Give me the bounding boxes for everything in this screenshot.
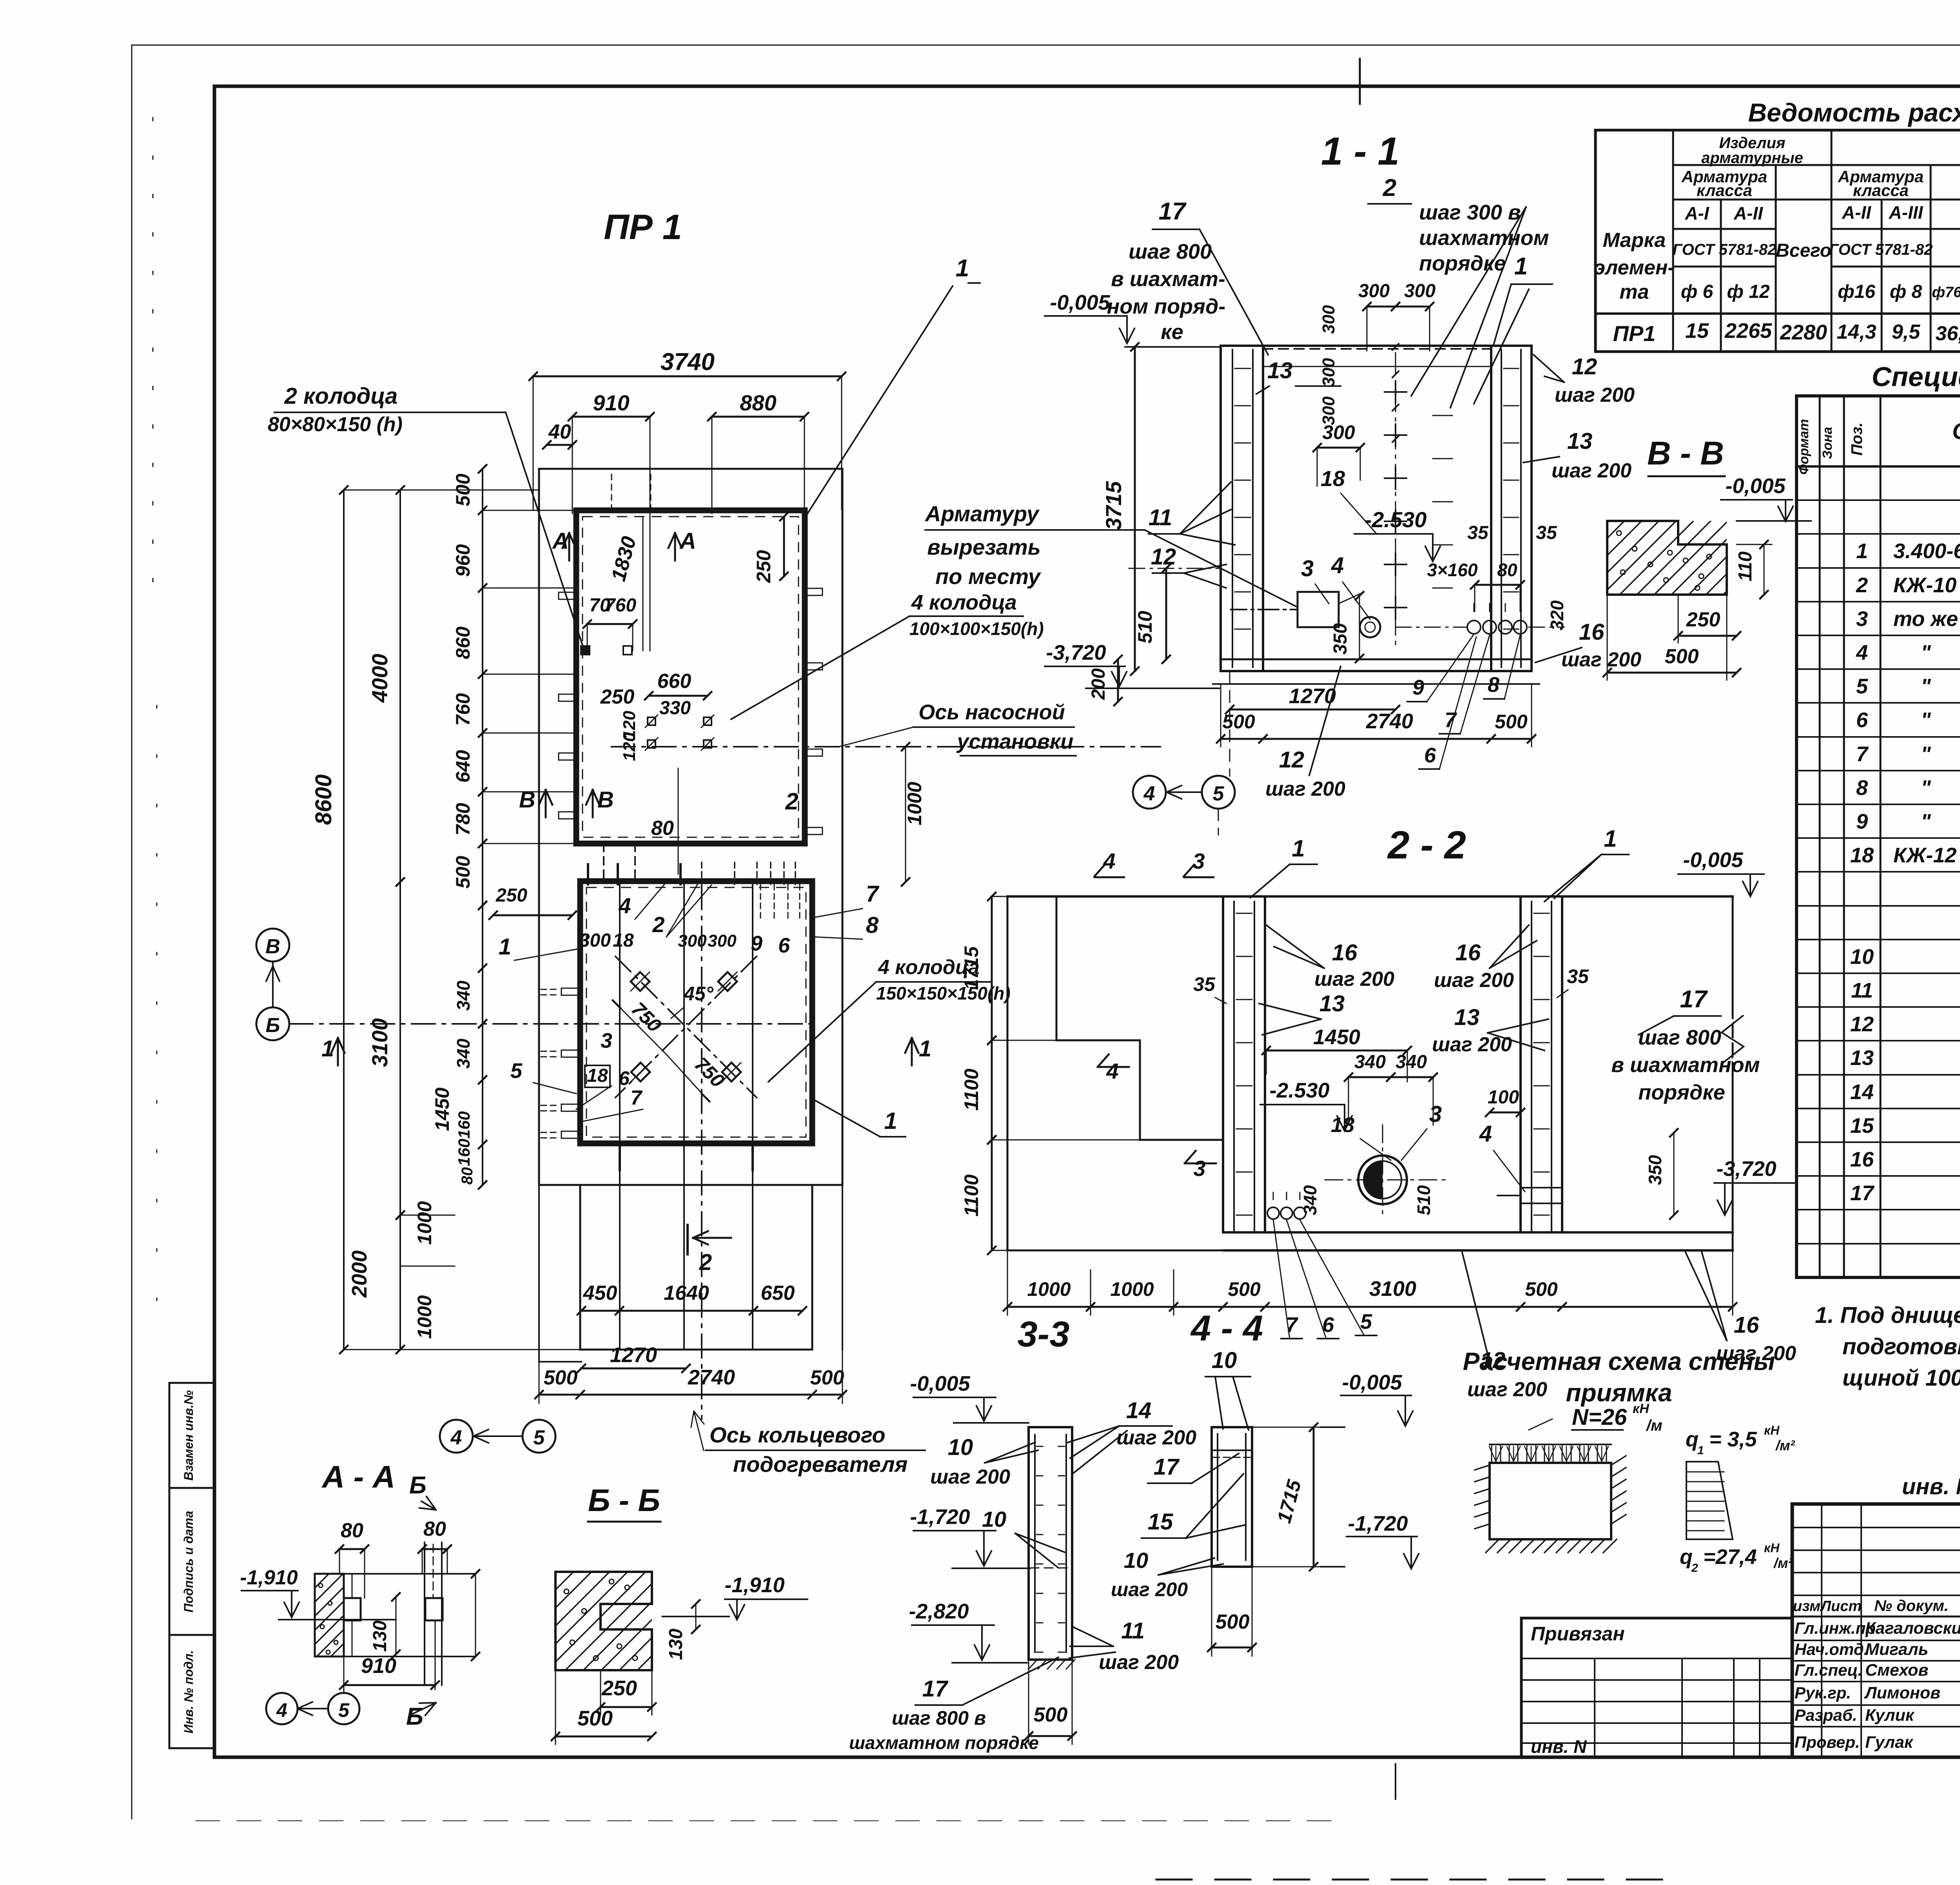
- svg-text:ном поряд-: ном поряд-: [1107, 295, 1226, 318]
- svg-text:18: 18: [1850, 844, 1874, 867]
- svg-text:160: 160: [455, 1139, 473, 1166]
- svg-text:3: 3: [1193, 1156, 1205, 1181]
- svg-text:/м²: /м²: [1773, 1555, 1793, 1571]
- svg-text:порядке: порядке: [1419, 252, 1506, 275]
- svg-text:1000: 1000: [904, 782, 926, 825]
- svg-text:шаг 200: шаг 200: [1111, 1578, 1188, 1600]
- svg-text:-1,910: -1,910: [240, 1566, 298, 1589]
- svg-text:15: 15: [1850, 1114, 1874, 1138]
- svg-text:18: 18: [1331, 1113, 1354, 1137]
- svg-text:А-II: А-II: [1733, 203, 1763, 223]
- svg-text:-0,005: -0,005: [1683, 848, 1743, 872]
- svg-text:17: 17: [1159, 198, 1187, 225]
- svg-text:130: 130: [370, 1620, 390, 1652]
- svg-text:Б - Б: Б - Б: [588, 1483, 660, 1518]
- svg-text:760: 760: [452, 693, 474, 726]
- svg-text:1270: 1270: [610, 1343, 657, 1367]
- svg-text:-0,005: -0,005: [1725, 474, 1786, 498]
- svg-text:15: 15: [1148, 1509, 1173, 1535]
- svg-text:Взамен инв.№: Взамен инв.№: [181, 1390, 196, 1480]
- svg-text:Кагаловский: Кагаловский: [1865, 1619, 1960, 1638]
- svg-text:3100: 3100: [1369, 1277, 1416, 1301]
- svg-text:250: 250: [753, 550, 775, 583]
- svg-text:35: 35: [1567, 965, 1589, 987]
- svg-text:шаг 300 в: шаг 300 в: [1419, 201, 1521, 224]
- svg-text:-0,005: -0,005: [910, 1372, 970, 1395]
- svg-text:В: В: [265, 935, 280, 958]
- svg-text:арматурные: арматурные: [1701, 149, 1803, 167]
- svg-text:1. Под днищем приямка выполнит: 1. Под днищем приямка выполнить: [1815, 1303, 1960, 1328]
- svg-text:": ": [1921, 776, 1931, 800]
- svg-text:500: 500: [577, 1707, 613, 1730]
- svg-text:35: 35: [1193, 973, 1216, 995]
- svg-text:шаг 200: шаг 200: [1552, 459, 1632, 482]
- svg-text:-2,820: -2,820: [909, 1600, 969, 1623]
- svg-text:300: 300: [1319, 358, 1338, 387]
- svg-text:q: q: [1686, 1428, 1699, 1451]
- svg-text:ПР 1: ПР 1: [604, 208, 682, 247]
- svg-text:500: 500: [544, 1366, 578, 1389]
- svg-text:4: 4: [1106, 1059, 1118, 1083]
- svg-text:4 - 4: 4 - 4: [1190, 1308, 1263, 1348]
- svg-text:300: 300: [1358, 281, 1390, 301]
- svg-text:130: 130: [666, 1629, 686, 1660]
- svg-text:80×80×150 (h): 80×80×150 (h): [268, 413, 403, 436]
- svg-text:/м²: /м²: [1775, 1437, 1795, 1453]
- svg-text:шаг 200: шаг 200: [1314, 968, 1394, 991]
- svg-text:3-3: 3-3: [1018, 1314, 1070, 1354]
- svg-text:17: 17: [1680, 986, 1708, 1013]
- svg-text:17: 17: [1154, 1454, 1180, 1480]
- svg-text:Разраб.: Разраб.: [1795, 1706, 1857, 1724]
- svg-text:13: 13: [1850, 1046, 1874, 1070]
- svg-text:4: 4: [450, 1426, 462, 1449]
- svg-text:8600: 8600: [311, 774, 336, 825]
- svg-text:13: 13: [1319, 991, 1345, 1016]
- svg-text:1000: 1000: [414, 1201, 436, 1245]
- svg-text:5: 5: [1360, 1310, 1372, 1333]
- svg-text:80: 80: [651, 817, 674, 840]
- svg-text:960: 960: [452, 544, 474, 577]
- left dim chains: [343, 490, 345, 1350]
- svg-text:12: 12: [1480, 1348, 1506, 1373]
- svg-text:Спецификация приямка ПР1: Спецификация приямка ПР1: [1872, 361, 1960, 392]
- svg-text:ф 6: ф 6: [1681, 281, 1713, 302]
- svg-text:-3,720: -3,720: [1046, 641, 1106, 664]
- diagonal axes lower rect: [615, 956, 757, 1098]
- svg-text:4 колодца: 4 колодца: [911, 591, 1017, 614]
- svg-text:45°: 45°: [683, 983, 714, 1005]
- svg-text:2: 2: [652, 912, 664, 937]
- svg-text:Смехов: Смехов: [1865, 1661, 1928, 1680]
- svg-text:В: В: [519, 787, 535, 813]
- svg-text:250: 250: [601, 1676, 637, 1700]
- svg-text:шахматном: шахматном: [1419, 226, 1549, 250]
- svg-text:№ докум.: № докум.: [1874, 1597, 1949, 1615]
- svg-text:А-II: А-II: [1842, 202, 1871, 223]
- svg-text:9,5: 9,5: [1892, 321, 1920, 343]
- svg-text:Гл.спец.: Гл.спец.: [1795, 1661, 1862, 1679]
- svg-text:450: 450: [583, 1282, 617, 1304]
- svg-text:Зона: Зона: [1820, 427, 1835, 459]
- svg-text:1: 1: [499, 934, 511, 960]
- svg-text:Кулик: Кулик: [1865, 1706, 1915, 1725]
- svg-text:шаг 200: шаг 200: [1116, 1426, 1196, 1449]
- svg-text:2280: 2280: [1780, 321, 1827, 344]
- svg-text:2000: 2000: [348, 1250, 371, 1298]
- svg-text:установки: установки: [956, 730, 1074, 753]
- svg-text:Гл.инж.пр: Гл.инж.пр: [1795, 1619, 1876, 1637]
- svg-text:ф 12: ф 12: [1727, 281, 1770, 302]
- svg-text:шаг 200: шаг 200: [930, 1466, 1010, 1488]
- svg-text:500: 500: [1222, 711, 1255, 733]
- svg-text:1450: 1450: [1313, 1025, 1360, 1049]
- svg-text:шахматном порядке: шахматном порядке: [849, 1733, 1039, 1753]
- svg-text:500: 500: [810, 1366, 844, 1389]
- svg-text:340: 340: [453, 980, 474, 1011]
- svg-text:6: 6: [778, 934, 790, 957]
- svg-text:Б: Б: [406, 1703, 423, 1730]
- svg-text:Марка: Марка: [1603, 229, 1666, 252]
- svg-text:160: 160: [455, 1111, 473, 1139]
- svg-text:7: 7: [631, 1087, 643, 1109]
- svg-text:1: 1: [956, 255, 969, 282]
- svg-text:3: 3: [1192, 849, 1205, 873]
- svg-text:элемен-: элемен-: [1594, 256, 1674, 279]
- svg-text:А: А: [679, 528, 696, 554]
- svg-text:300: 300: [1319, 305, 1338, 334]
- svg-text:А-III: А-III: [1889, 202, 1924, 223]
- svg-text:1000: 1000: [1027, 1278, 1071, 1300]
- svg-text:13: 13: [1567, 428, 1593, 454]
- svg-text:10: 10: [1850, 945, 1874, 969]
- svg-text:16: 16: [1734, 1312, 1759, 1338]
- svg-text:Провер.: Провер.: [1795, 1733, 1860, 1751]
- svg-text:9: 9: [1856, 810, 1868, 833]
- svg-text:12: 12: [1572, 354, 1597, 379]
- svg-text:КЖ-12: КЖ-12: [1893, 844, 1956, 867]
- svg-text:16: 16: [1332, 940, 1357, 965]
- svg-text:11: 11: [1851, 979, 1873, 1002]
- svg-text:3715: 3715: [1101, 481, 1126, 530]
- svg-text:1000: 1000: [1110, 1278, 1154, 1300]
- svg-text:1: 1: [919, 1036, 931, 1061]
- svg-text:КЖ-10: КЖ-10: [1893, 573, 1956, 597]
- svg-text:4: 4: [1856, 641, 1868, 664]
- svg-text:Поз.: Поз.: [1848, 423, 1866, 456]
- svg-text:кН: кН: [1633, 1401, 1650, 1416]
- svg-text:500: 500: [452, 856, 474, 889]
- svg-text:шаг 200: шаг 200: [1716, 1342, 1796, 1365]
- svg-text:шаг 200: шаг 200: [1099, 1651, 1179, 1674]
- scan noise bottom lines: [196, 1820, 1348, 1822]
- svg-text:7: 7: [1856, 742, 1869, 766]
- svg-text:110: 110: [1735, 551, 1756, 581]
- svg-text:": ": [1921, 641, 1931, 664]
- svg-text:ГОСТ 5781-82: ГОСТ 5781-82: [1829, 241, 1933, 258]
- svg-text:11: 11: [1149, 505, 1172, 530]
- svg-text:класса: класса: [1853, 181, 1909, 200]
- svg-text:300: 300: [579, 930, 611, 951]
- svg-text:80: 80: [423, 1518, 446, 1540]
- svg-text:4: 4: [1479, 1121, 1492, 1147]
- svg-text:100×100×150(h): 100×100×150(h): [909, 619, 1044, 639]
- svg-text:5: 5: [534, 1426, 545, 1449]
- svg-text:Нач.отд.: Нач.отд.: [1795, 1640, 1868, 1658]
- svg-text:": ": [1921, 742, 1931, 766]
- svg-text:5: 5: [1213, 782, 1225, 805]
- svg-text:А - А: А - А: [321, 1459, 396, 1494]
- svg-text:2 колодца: 2 колодца: [284, 383, 398, 409]
- svg-text:300: 300: [1319, 396, 1338, 425]
- svg-text:2: 2: [699, 1250, 712, 1275]
- svg-text:500: 500: [1228, 1278, 1261, 1300]
- svg-text:510: 510: [1134, 611, 1156, 644]
- svg-text:760: 760: [605, 595, 636, 616]
- svg-text:Привязан: Привязан: [1531, 1623, 1625, 1645]
- svg-text:3: 3: [1301, 556, 1314, 581]
- svg-text:4: 4: [1143, 782, 1155, 805]
- svg-text:500: 500: [1495, 711, 1528, 733]
- svg-text:18: 18: [587, 1065, 608, 1086]
- svg-text:Обозначение: Обозначение: [1952, 419, 1960, 444]
- svg-text:1: 1: [1514, 253, 1528, 280]
- svg-text:2: 2: [1383, 174, 1396, 201]
- svg-text:12: 12: [1151, 544, 1176, 570]
- svg-text:500: 500: [1216, 1611, 1250, 1633]
- svg-text:200: 200: [1088, 668, 1109, 700]
- svg-text:в шахматном: в шахматном: [1611, 1053, 1760, 1077]
- svg-text:шаг 200: шаг 200: [1265, 778, 1345, 800]
- svg-text:16: 16: [1455, 940, 1481, 965]
- svg-text:ф76×4: ф76×4: [1932, 284, 1960, 301]
- svg-text:Мигаль: Мигаль: [1865, 1640, 1928, 1659]
- svg-text:8: 8: [866, 913, 879, 938]
- plan lower callouts: [619, 884, 621, 1350]
- svg-text:1: 1: [1604, 825, 1617, 852]
- svg-text:300: 300: [678, 931, 707, 951]
- svg-text:780: 780: [452, 803, 474, 836]
- svg-text:250: 250: [600, 686, 635, 708]
- svg-text:Гулак: Гулак: [1865, 1733, 1914, 1752]
- svg-text:500: 500: [1034, 1704, 1068, 1726]
- svg-text:3: 3: [1856, 607, 1868, 631]
- svg-text:ГОСТ 5781-82: ГОСТ 5781-82: [1673, 241, 1777, 258]
- svg-text:=27,4: =27,4: [1703, 1545, 1757, 1569]
- svg-text:17: 17: [1850, 1181, 1875, 1205]
- svg-text:9: 9: [751, 932, 762, 955]
- svg-text:16: 16: [1579, 619, 1604, 645]
- svg-text:Арматуру: Арматуру: [924, 501, 1040, 526]
- svg-text:250: 250: [1686, 608, 1720, 631]
- svg-text:330: 330: [659, 698, 691, 718]
- svg-text:Б: Б: [409, 1472, 426, 1499]
- stamp column left: [169, 1383, 214, 1748]
- svg-text:10: 10: [948, 1435, 973, 1460]
- svg-text:вырезать: вырезать: [927, 535, 1041, 559]
- svg-text:": ": [1921, 675, 1931, 698]
- outer scan border: [132, 45, 1960, 46]
- svg-text:18: 18: [1321, 466, 1345, 491]
- svg-text:В: В: [597, 787, 614, 813]
- svg-text:1715: 1715: [960, 946, 982, 990]
- svg-text:1: 1: [1292, 835, 1305, 862]
- svg-text:1: 1: [884, 1108, 897, 1134]
- svg-text:6: 6: [1856, 708, 1868, 732]
- svg-text:660: 660: [657, 670, 691, 693]
- svg-text:7: 7: [866, 881, 880, 907]
- svg-text:3: 3: [1429, 1101, 1442, 1127]
- svg-text:500: 500: [1665, 645, 1699, 668]
- svg-text:3: 3: [601, 1029, 612, 1052]
- svg-text:инв. N: инв. N: [1531, 1736, 1587, 1757]
- svg-text:Инв. № подл.: Инв. № подл.: [181, 1650, 196, 1734]
- svg-text:В - В: В - В: [1647, 435, 1724, 472]
- svg-text:2: 2: [785, 788, 798, 815]
- svg-text:910: 910: [593, 390, 629, 415]
- svg-text:подогревателя: подогревателя: [733, 1452, 907, 1477]
- svg-text:1: 1: [1697, 1444, 1704, 1457]
- svg-text:100: 100: [1488, 1087, 1519, 1108]
- svg-text:640: 640: [452, 750, 474, 783]
- svg-text:шаг 200: шаг 200: [1555, 384, 1635, 406]
- svg-text:300: 300: [1404, 281, 1436, 301]
- svg-text:5: 5: [338, 1699, 350, 1721]
- svg-text:300: 300: [1322, 421, 1355, 443]
- svg-text:5: 5: [1856, 675, 1868, 698]
- svg-text:13: 13: [1454, 1005, 1480, 1030]
- svg-text:шаг 200: шаг 200: [1561, 648, 1641, 671]
- svg-text:910: 910: [361, 1654, 396, 1678]
- svg-text:8: 8: [1856, 776, 1868, 800]
- svg-text:класса: класса: [1697, 181, 1752, 200]
- svg-text:6: 6: [619, 1067, 630, 1089]
- svg-text:Ось насосной: Ось насосной: [918, 700, 1065, 724]
- svg-text:-1,910: -1,910: [724, 1573, 784, 1597]
- svg-text:3.400-6/76: 3.400-6/76: [1893, 539, 1960, 563]
- svg-text:15: 15: [1685, 319, 1709, 343]
- svg-text:Б: Б: [266, 1014, 280, 1037]
- svg-text:340: 340: [1396, 1052, 1427, 1072]
- svg-text:3740: 3740: [661, 348, 715, 376]
- svg-text:2: 2: [1856, 573, 1868, 597]
- svg-text:Формат: Формат: [1797, 419, 1811, 475]
- svg-text:350: 350: [1330, 623, 1351, 655]
- svg-text:Лимонов: Лимонов: [1864, 1684, 1940, 1702]
- svg-text:18: 18: [613, 930, 634, 951]
- svg-text:340: 340: [1300, 1185, 1320, 1215]
- svg-text:инв. N-8741/1: инв. N-8741/1: [1902, 1474, 1960, 1499]
- svg-text:12: 12: [1279, 747, 1305, 773]
- svg-text:340: 340: [453, 1038, 474, 1069]
- svg-text:13: 13: [1267, 358, 1293, 383]
- svg-text:12: 12: [1850, 1012, 1874, 1036]
- svg-text:шаг 800 в: шаг 800 в: [892, 1707, 986, 1729]
- svg-text:11: 11: [1121, 1618, 1145, 1644]
- svg-text:кН: кН: [1764, 1541, 1780, 1555]
- svg-text:40: 40: [548, 421, 571, 443]
- svg-text:кН: кН: [1764, 1423, 1780, 1437]
- svg-text:4: 4: [276, 1699, 287, 1721]
- svg-text:ке: ке: [1161, 320, 1183, 344]
- dots in concrete: [1617, 531, 1621, 535]
- svg-text:5: 5: [510, 1059, 523, 1083]
- svg-text:": ": [1921, 810, 1931, 833]
- svg-text:щиной 100 мм.: щиной 100 мм.: [1842, 1365, 1960, 1391]
- svg-text:4: 4: [618, 893, 631, 918]
- svg-text:шаг 800: шаг 800: [1638, 1026, 1721, 1049]
- svg-text:1450: 1450: [431, 1087, 453, 1131]
- svg-text:та: та: [1619, 281, 1649, 303]
- svg-text:/м: /м: [1646, 1417, 1662, 1434]
- svg-text:80: 80: [459, 1167, 476, 1185]
- svg-text:1000: 1000: [414, 1295, 436, 1339]
- svg-text:-1,720: -1,720: [1348, 1512, 1408, 1535]
- svg-text:шаг 200: шаг 200: [1434, 969, 1514, 992]
- svg-text:-1,720: -1,720: [910, 1505, 970, 1529]
- svg-text:-3,720: -3,720: [1716, 1157, 1776, 1181]
- svg-text:Подпись и дата: Подпись и дата: [181, 1511, 196, 1612]
- svg-text:36,2: 36,2: [1935, 322, 1960, 345]
- svg-text:ПР1: ПР1: [1613, 321, 1656, 346]
- svg-text:подготовку из бетона М50 тол-: подготовку из бетона М50 тол-: [1842, 1334, 1960, 1359]
- svg-text:шаг 800: шаг 800: [1129, 240, 1212, 263]
- svg-text:10: 10: [1212, 1348, 1237, 1373]
- svg-text:3×160: 3×160: [1427, 560, 1478, 580]
- svg-text:2740: 2740: [1366, 709, 1413, 733]
- svg-text:650: 650: [761, 1282, 795, 1304]
- svg-text:Рук.гр.: Рук.гр.: [1795, 1684, 1851, 1702]
- svg-text:2: 2: [1691, 1562, 1698, 1575]
- main frame: [214, 85, 1960, 88]
- registration tick top center: [1359, 59, 1361, 104]
- svg-text:80: 80: [341, 1519, 363, 1542]
- svg-text:860: 860: [452, 626, 474, 659]
- svg-text:35: 35: [1536, 523, 1557, 543]
- svg-text:А-I: А-I: [1684, 203, 1710, 223]
- svg-text:10: 10: [982, 1507, 1006, 1531]
- svg-text:изм: изм: [1793, 1598, 1820, 1615]
- svg-text:2265: 2265: [1724, 319, 1772, 343]
- svg-text:Ведомость расхода стали на: Ведомость расхода стали на элемент , кг: [1748, 98, 1960, 127]
- svg-text:N=26: N=26: [1572, 1404, 1627, 1430]
- svg-text:в шахмат-: в шахмат-: [1111, 267, 1225, 291]
- svg-text:Всего: Всего: [1776, 240, 1831, 261]
- svg-text:1100: 1100: [960, 1174, 982, 1217]
- svg-text:14: 14: [1126, 1398, 1152, 1423]
- svg-text:-2.530: -2.530: [1269, 1079, 1329, 1102]
- svg-text:10: 10: [1124, 1548, 1148, 1573]
- svg-text:q: q: [1680, 1545, 1693, 1569]
- svg-text:340: 340: [1354, 1052, 1386, 1072]
- svg-text:-2.530: -2.530: [1365, 507, 1427, 532]
- privyazan table: [1521, 1618, 1792, 1757]
- svg-text:2 - 2: 2 - 2: [1387, 823, 1466, 867]
- svg-text:17: 17: [922, 1676, 949, 1702]
- svg-text:35: 35: [1467, 523, 1489, 543]
- svg-text:ф16: ф16: [1838, 281, 1875, 302]
- svg-text:4: 4: [1331, 553, 1344, 578]
- svg-text:80: 80: [1497, 560, 1517, 580]
- svg-text:порядке: порядке: [1638, 1081, 1725, 1104]
- svg-text:1: 1: [1856, 539, 1868, 563]
- svg-text:Лист: Лист: [1820, 1598, 1862, 1615]
- svg-text:3100: 3100: [367, 1018, 392, 1067]
- svg-text:= 3,5: = 3,5: [1709, 1428, 1757, 1451]
- svg-text:Ось кольцевого: Ось кольцевого: [710, 1422, 886, 1447]
- svg-text:8: 8: [1488, 673, 1499, 697]
- svg-text:4000: 4000: [367, 654, 392, 703]
